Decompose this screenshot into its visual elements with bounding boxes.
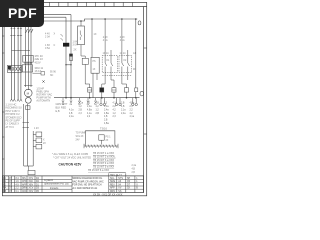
title block notes text <box>73 177 104 190</box>
relay pin labels above dashed boxes <box>103 52 137 55</box>
auxiliary contact box B2 (filled) <box>100 88 104 92</box>
svg-text:4,Ba: 4,Ba <box>130 103 135 105</box>
disconnect switch S1 blades <box>26 29 34 33</box>
S2 stub to bus <box>80 21 82 26</box>
overload relay circles <box>25 62 32 64</box>
title block company name <box>44 178 69 190</box>
wire colour code labels column A <box>56 103 68 113</box>
contactor K1 pole ticks <box>26 56 32 61</box>
svg-text:Impacts: Impacts <box>50 187 59 190</box>
pressure switch PS1 above title block <box>28 170 35 174</box>
svg-text:4,B: 4,B <box>104 116 108 118</box>
solenoid valve Y1 <box>26 106 31 110</box>
svg-text:TB 15 WT 6 a XXX: TB 15 WT 6 a XXX <box>88 169 109 172</box>
title block right upper extension <box>109 173 144 190</box>
terminal strip hatched bar <box>84 144 118 148</box>
svg-text:TO PUMP: TO PUMP <box>76 133 87 135</box>
svg-text:4,1a: 4,1a <box>130 116 135 118</box>
relay group dashed enclosure 2 <box>119 56 132 73</box>
cable run riser 1 <box>23 104 25 166</box>
svg-text:APP: APP <box>110 187 115 190</box>
wire S2 down <box>81 45 85 59</box>
cable run riser 3 <box>32 131 34 166</box>
switch contact marks beside RV1 <box>61 34 64 41</box>
relay module U1 body <box>91 57 99 73</box>
svg-text:XCV: XCV <box>29 188 34 190</box>
wire link RV1 to F2 <box>66 64 71 66</box>
svg-text:1X: 1X <box>93 69 96 71</box>
note text above caution <box>52 153 91 159</box>
push button station box S2 <box>78 26 85 45</box>
title block horizontal rules left <box>2 179 72 189</box>
limit switch box LS2 <box>36 138 42 143</box>
interlock contact box <box>99 135 104 140</box>
auxiliary contact box B3 <box>112 88 116 92</box>
limit switch box LS3 <box>36 144 42 149</box>
svg-text:24V: 24V <box>76 140 81 142</box>
svg-text:XXV: XXV <box>29 178 34 180</box>
border frame right inner line <box>143 7 145 193</box>
relay group dashed enclosure 1 <box>102 56 117 73</box>
border frame outer <box>2 2 146 195</box>
wire stubs to switches <box>33 134 36 146</box>
rail terminal arrows <box>10 99 22 101</box>
svg-text:4,B: 4,B <box>69 113 73 115</box>
svg-text:NC: NC <box>50 75 54 77</box>
svg-text:2,1a: 2,1a <box>69 116 74 118</box>
svg-text:2,1a: 2,1a <box>104 106 109 108</box>
cable junction ticks <box>23 123 30 128</box>
svg-text:2 0A: 2 0A <box>45 36 50 39</box>
connector plug P3 <box>132 98 138 106</box>
wire TR1 down <box>84 64 86 84</box>
svg-text:AT 70 C: AT 70 C <box>6 126 15 129</box>
node junction dots on bus <box>80 18 136 22</box>
contact K2b wire <box>128 50 130 80</box>
title block right cells text <box>110 175 138 193</box>
svg-text:CKD: CKD <box>22 191 27 193</box>
svg-text:2,B: 2,B <box>121 103 125 105</box>
svg-text:PS 1: PS 1 <box>106 137 112 139</box>
svg-text:TS/16: TS/16 <box>100 127 107 131</box>
svg-text:SOL 2X: SOL 2X <box>76 136 84 138</box>
auxiliary contact box B1 <box>88 88 92 92</box>
wire jog to aux box B4 <box>122 84 127 88</box>
varistor RV1 (filled) <box>63 43 69 47</box>
svg-text:APP: APP <box>22 183 27 186</box>
svg-text:2,B: 2,B <box>96 113 100 115</box>
svg-text:2,4a: 2,4a <box>104 109 109 111</box>
svg-text:2,4a: 2,4a <box>121 113 126 115</box>
svg-text:RA: RA <box>3 187 7 190</box>
svg-text:1X: 1X <box>94 33 97 36</box>
contact K2a wire <box>122 19 124 84</box>
overload relay OL1 body <box>22 65 32 72</box>
limit switch box LS1 <box>36 132 42 137</box>
auxiliary contact box B4 <box>124 88 128 92</box>
wire jog to aux box B3 <box>111 80 114 88</box>
svg-text:4,B: 4,B <box>132 168 136 170</box>
svg-text:A.C AND WATER 16 ckt: A.C AND WATER 16 ckt <box>73 187 98 190</box>
top margin zone dividers <box>50 2 133 6</box>
svg-text:Cyient: Cyient <box>44 178 53 182</box>
svg-text:415V: 415V <box>35 60 41 64</box>
svg-text:4,1a: 4,1a <box>113 103 118 105</box>
node joint dots <box>65 64 71 65</box>
svg-text:0 5A: 0 5A <box>45 47 50 50</box>
hyperlink style note lines <box>88 152 116 172</box>
border frame top margin strip <box>2 6 146 8</box>
contact K1b wire <box>111 50 113 80</box>
svg-text:CK: CK <box>127 188 131 190</box>
wire fuse branch <box>70 15 72 98</box>
svg-text:FOR DV6, NO SF6 ATTACH: FOR DV6, NO SF6 ATTACH <box>73 184 102 187</box>
connector plug P1 <box>100 98 106 106</box>
svg-text:2,1a: 2,1a <box>121 109 126 111</box>
svg-text:AUTOMATN: AUTOMATN <box>36 100 50 103</box>
connector plug P2 <box>115 98 121 106</box>
motor terminal bar <box>24 85 33 87</box>
svg-text:DRN: DRN <box>22 188 27 190</box>
wire riser M1 coil <box>135 19 137 88</box>
phase rail L2 <box>13 17 15 99</box>
component value label cluster left of RV1 <box>45 33 56 51</box>
svg-text:SIZE: SIZE <box>110 181 116 183</box>
svg-text:VV: VV <box>118 188 122 190</box>
left margin zone ticks <box>2 36 4 159</box>
svg-text:SH: SH <box>127 178 131 180</box>
wire L3 control bus node B <box>20 19 137 21</box>
circuit breaker Q1 body <box>8 65 22 72</box>
left margin cable note text <box>6 104 22 129</box>
label cluster contactor ratings <box>35 54 44 73</box>
zone reference bubble mid right <box>140 91 144 96</box>
component value labels right of F2 <box>73 41 78 52</box>
svg-text:PS: PS <box>93 61 97 63</box>
motor M1 lower circle <box>25 97 31 103</box>
svg-text:CAUTION 415V: CAUTION 415V <box>59 162 83 166</box>
title block vertical rules <box>5 173 135 192</box>
PDF badge <box>0 0 44 27</box>
LS labels <box>34 128 46 145</box>
svg-text:SCL: SCL <box>110 178 115 180</box>
svg-text:CHK: CHK <box>22 181 27 183</box>
corner continuation note <box>132 165 137 174</box>
svg-text:2,B: 2,B <box>104 120 108 122</box>
title block revision rows text <box>3 178 40 193</box>
fuse F2 filled end <box>70 54 73 57</box>
phase rail L1 <box>11 15 13 99</box>
rail top terminal ticks <box>11 27 22 29</box>
svg-text:E,B: E,B <box>56 110 60 113</box>
interlock labels <box>50 72 56 77</box>
wire jog to aux box B2 <box>102 84 105 88</box>
relay pin labels inside dashed boxes <box>93 60 137 71</box>
dashed link line under enclosures <box>102 75 132 77</box>
bus junction dots <box>65 97 136 99</box>
contactor K1 body <box>23 55 33 62</box>
svg-text:2,B: 2,B <box>132 172 136 174</box>
S2 contact symbol inside <box>80 31 82 41</box>
svg-text:* CKT VOLT 24 VDC UNL NOTED: * CKT VOLT 24 VDC UNL NOTED <box>53 156 91 159</box>
relay module U1 pin stubs <box>93 73 97 98</box>
svg-text:ISS: ISS <box>22 178 26 180</box>
svg-text:XDV: XDV <box>29 191 34 193</box>
wire OL to interlock <box>33 72 42 74</box>
wire varistor branch <box>65 17 67 98</box>
overload relay OL1 pole ticks <box>26 66 32 70</box>
terminal strip TS/16 bracket <box>85 131 115 145</box>
terminal number labels below bus <box>62 104 98 106</box>
wire riser to module U1 <box>91 19 93 57</box>
svg-text:2,B: 2,B <box>79 109 83 111</box>
svg-text:RB: RB <box>3 191 7 193</box>
rail fuse ticks <box>10 35 22 37</box>
svg-text:XAV: XAV <box>29 180 34 183</box>
svg-text:XBV: XBV <box>29 184 34 186</box>
circuit breaker Q1 contact crosses <box>9 67 21 71</box>
wire stub to PS1 <box>27 166 29 170</box>
svg-text:4,B: 4,B <box>121 106 125 108</box>
svg-text:C: C <box>54 44 56 47</box>
wire interlock drop <box>101 140 103 144</box>
phase rail L3 <box>17 26 19 99</box>
svg-text:4 1A: 4 1A <box>103 39 108 42</box>
label oil pump text block <box>36 88 52 103</box>
aux interlock contact right of OL <box>41 72 45 76</box>
svg-text:XX 9X - XX1 OF XX +XXX: XX 9X - XX1 OF XX +XXX <box>93 193 123 196</box>
svg-text:3 0A: 3 0A <box>73 44 78 47</box>
wire L1 top feed <box>12 14 72 16</box>
svg-text:2X: 2X <box>43 143 46 145</box>
aux box B1 inner tick <box>88 89 92 91</box>
svg-text:2X: 2X <box>106 140 109 142</box>
svg-text:4 1A: 4 1A <box>120 39 125 42</box>
svg-text:1 2X: 1 2X <box>34 128 39 130</box>
riser wire labels <box>94 33 126 42</box>
svg-text:2X: 2X <box>74 49 77 52</box>
svg-text:NTS: NTS <box>118 178 123 180</box>
svg-text:REV: REV <box>110 184 115 186</box>
svg-text:VAC PUMP, CP, ARGON, VAC: VAC PUMP, CP, ARGON, VAC <box>73 180 104 183</box>
motor M1 outer circle <box>25 89 33 97</box>
crossed wires mark <box>42 80 45 83</box>
svg-text:2,4a: 2,4a <box>132 165 137 167</box>
terminal stubs below bus with arrows <box>62 98 97 103</box>
wire jog to aux box B1 <box>85 84 90 88</box>
wire U bottom <box>24 165 34 167</box>
motor starter coil box B5 <box>135 88 138 92</box>
timer block TR1 <box>82 58 88 64</box>
aux box stubs to bus <box>90 92 136 98</box>
svg-text:DRG 44-C1: DRG 44-C1 <box>110 175 123 177</box>
svg-text:2,4a: 2,4a <box>87 106 92 108</box>
fuse F2 body <box>70 54 73 61</box>
contact K1a wire <box>105 19 107 84</box>
right margin zone ticks <box>144 48 147 134</box>
wire L2 top feed <box>14 16 66 18</box>
svg-text:4,Ba: 4,Ba <box>104 113 109 115</box>
border frame left inner line <box>3 7 5 193</box>
labels beside terminal bracket <box>76 133 112 143</box>
zone reference bubble top right <box>138 21 141 25</box>
wire colour code label grid <box>69 103 135 125</box>
cable run riser 2 <box>27 104 29 166</box>
title block outline <box>2 176 143 193</box>
svg-text:WIRING DIAGRAM FOR OIL: WIRING DIAGRAM FOR OIL <box>73 177 103 180</box>
svg-text:4,Ba: 4,Ba <box>104 123 109 125</box>
svg-text:13 14: 13 14 <box>120 52 127 55</box>
svg-text:13 14: 13 14 <box>103 52 110 55</box>
aux box B3 inner tick <box>112 89 116 91</box>
svg-text:4,1a: 4,1a <box>69 109 74 111</box>
ground PE terminal blob <box>8 66 11 70</box>
rail tie line <box>12 50 31 52</box>
svg-text:16 1X: 16 1X <box>35 69 42 73</box>
svg-text:4,1a: 4,1a <box>87 113 92 115</box>
svg-text:Spectrometers Pvt. Ltd.: Spectrometers Pvt. Ltd. <box>44 183 69 186</box>
svg-text:4,Ba: 4,Ba <box>87 109 92 111</box>
svg-text:95 96: 95 96 <box>50 72 56 74</box>
contactor K1 pole wires <box>26 26 32 90</box>
control bus node C <box>54 97 140 99</box>
phase rail N <box>20 26 22 99</box>
